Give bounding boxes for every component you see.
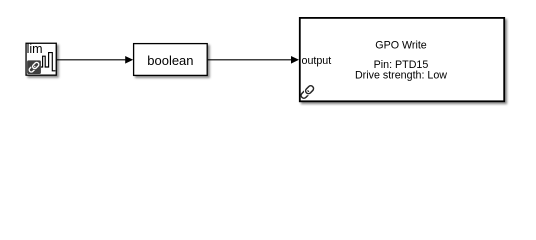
svg-text:Drive strength: Low: Drive strength: Low — [355, 70, 447, 82]
boolean block (Data Type Conversion) — [134, 44, 208, 76]
arrowhead 1 — [125, 56, 133, 64]
wire 1 — [57, 59, 127, 61]
badge chain icon — [28, 62, 39, 73]
link icon — [300, 85, 315, 100]
svg-text:boolean: boolean — [147, 53, 193, 68]
waveform icon — [41, 53, 55, 71]
subsystem block (lim / PWM input) — [26, 43, 56, 75]
GPO Write block — [300, 18, 504, 101]
wire 2 — [208, 59, 293, 61]
svg-text:lim: lim — [27, 42, 43, 56]
library link badge — [27, 60, 41, 74]
arrowhead 2 — [291, 56, 299, 64]
svg-text:GPO Write: GPO Write — [375, 40, 427, 52]
svg-text:output: output — [302, 55, 332, 67]
